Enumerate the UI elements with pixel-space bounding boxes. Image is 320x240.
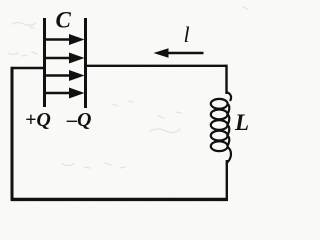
capacitor C1 left plate bbox=[43, 18, 46, 107]
svg-text:–Q: –Q bbox=[66, 109, 91, 131]
svg-text:+Q: +Q bbox=[25, 109, 51, 131]
electric field arrow 3 bbox=[46, 70, 85, 81]
electric field arrow 2 bbox=[46, 53, 85, 64]
inductor L1 coil bbox=[211, 92, 231, 163]
svg-text:l: l bbox=[184, 22, 190, 47]
electric field arrow 4 bbox=[46, 88, 85, 99]
svg-text:L: L bbox=[234, 110, 249, 135]
wire left vertical bbox=[11, 67, 14, 200]
wire right vertical top segment bbox=[225, 65, 227, 94]
svg-text:C: C bbox=[56, 7, 72, 32]
wire top (right plate to top-right corner) bbox=[86, 65, 227, 67]
wire right vertical bottom segment bbox=[226, 160, 228, 200]
electric field arrow 1 bbox=[46, 34, 85, 45]
current arrow I bbox=[154, 48, 204, 58]
wire left horizontal (node between C left plate and loop) bbox=[12, 67, 45, 69]
wire bottom bbox=[11, 198, 228, 201]
capacitor C1 right plate bbox=[84, 18, 87, 108]
